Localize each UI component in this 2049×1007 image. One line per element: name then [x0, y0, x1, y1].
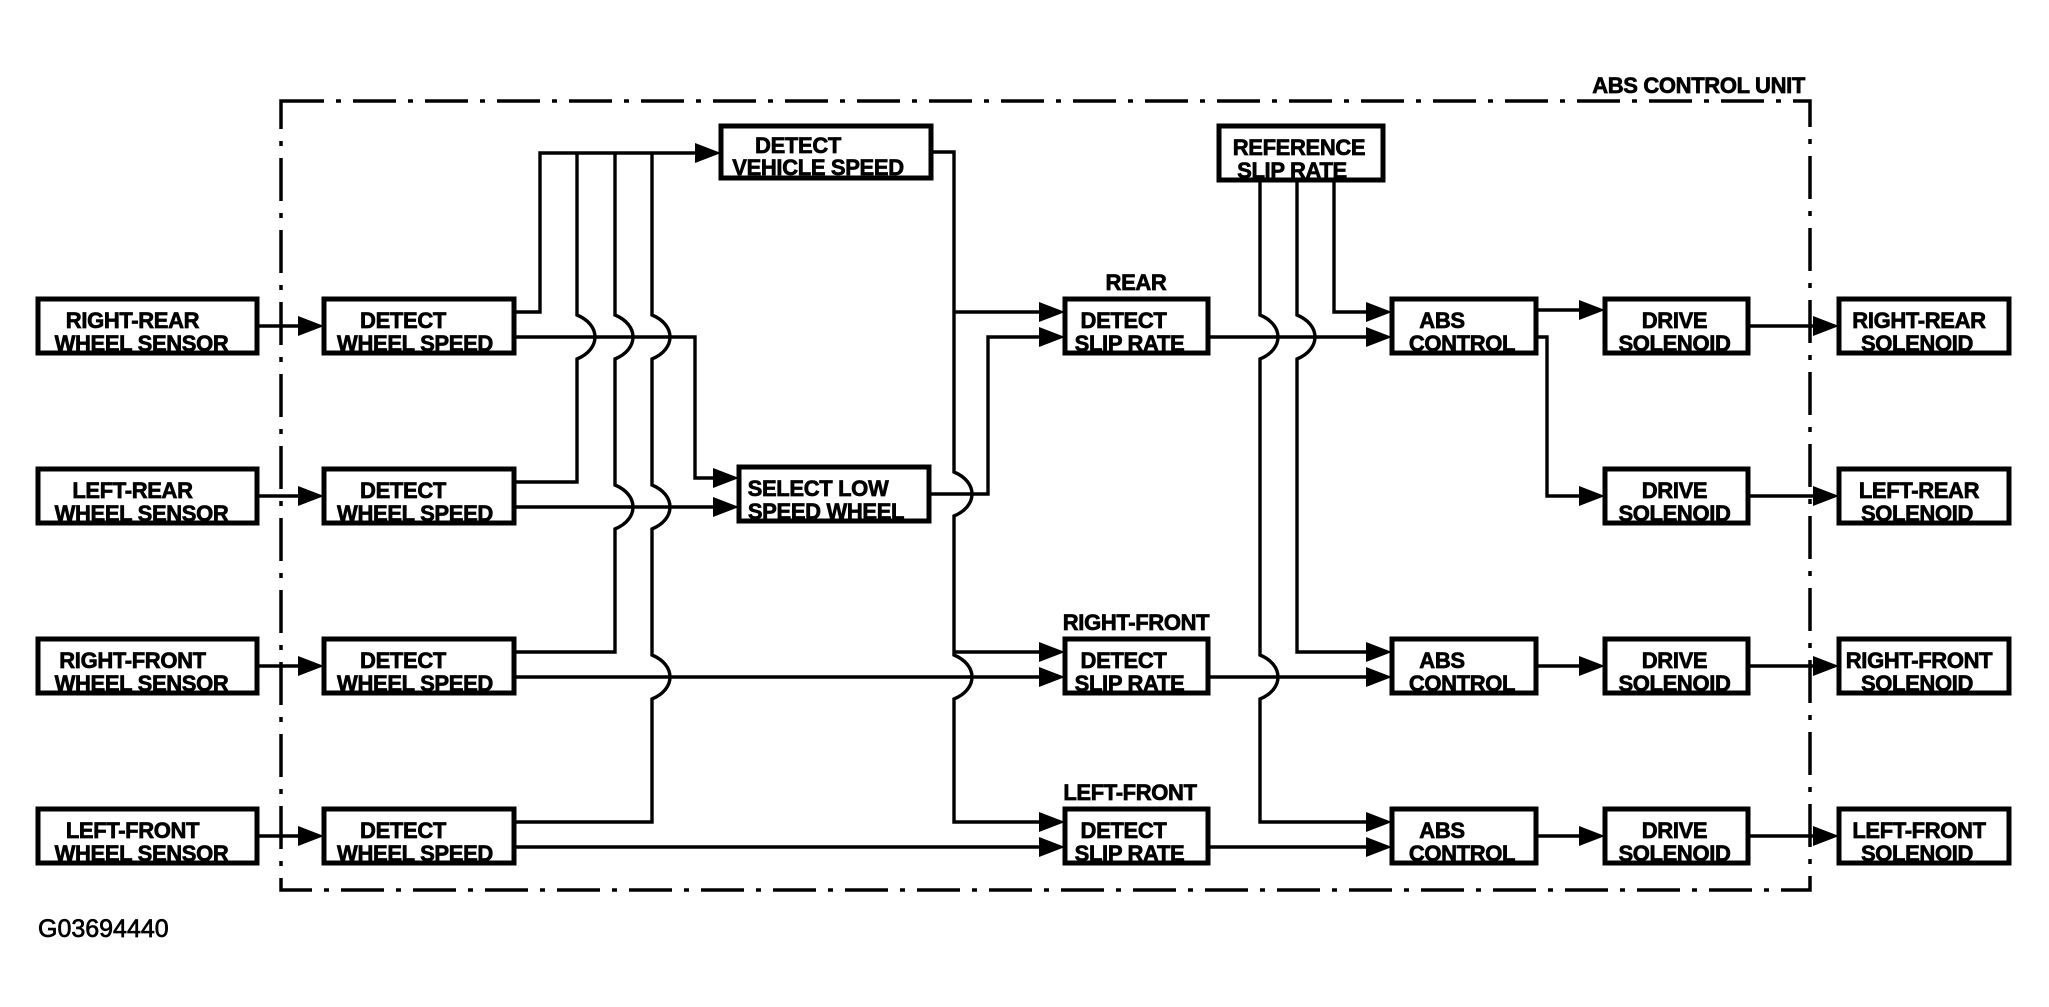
svg-text:LEFT-FRONT: LEFT-FRONT — [1063, 780, 1197, 805]
block RIGHT-FRONT WHEEL SENSOR input — [38, 639, 257, 696]
wire row3 wheel speed to RIGHT-FRONT DETECT SLIP RATE — [514, 675, 1041, 678]
arrowhead into DRIVE SOLENOID row1 — [1579, 300, 1605, 320]
svg-text:ABS: ABS — [1419, 308, 1464, 333]
svg-text:SLIP RATE: SLIP RATE — [1075, 331, 1185, 356]
block DRIVE SOLENOID (row 1) — [1605, 299, 1748, 356]
svg-text:DETECT: DETECT — [360, 648, 447, 673]
wire RIGHT-FRONT DETECT SLIP RATE to ABS CONTROL row3 — [1208, 675, 1368, 678]
wire REAR DETECT SLIP RATE to ABS CONTROL row1 — [1208, 335, 1368, 338]
svg-text:LEFT-FRONT: LEFT-FRONT — [1852, 818, 1986, 843]
wire ABS CONTROL row1 to DRIVE SOLENOID row2 — [1536, 337, 1581, 496]
arrowhead into LEFT-FRONT DETECT SLIP RATE upper input — [1039, 812, 1065, 832]
svg-text:SOLENOID: SOLENOID — [1618, 501, 1730, 526]
svg-text:ABS: ABS — [1419, 818, 1464, 843]
arrowhead into DRIVE SOLENOID row4 — [1579, 826, 1605, 846]
svg-text:RIGHT-REAR: RIGHT-REAR — [66, 308, 200, 333]
svg-text:DETECT: DETECT — [360, 308, 447, 333]
block DETECT WHEEL SPEED (row 2) — [324, 469, 514, 526]
block DRIVE SOLENOID (row 2) — [1605, 469, 1748, 526]
svg-text:WHEEL SENSOR: WHEEL SENSOR — [55, 841, 229, 866]
svg-text:SOLENOID: SOLENOID — [1861, 841, 1973, 866]
svg-text:SOLENOID: SOLENOID — [1861, 501, 1973, 526]
svg-text:DRIVE: DRIVE — [1642, 648, 1708, 673]
wire row2 wheel speed rising to feed line (hops row1) — [514, 153, 595, 482]
svg-text:SOLENOID: SOLENOID — [1618, 331, 1730, 356]
arrowhead into REAR DETECT SLIP RATE upper input — [1039, 302, 1065, 322]
svg-text:ABS: ABS — [1419, 648, 1464, 673]
block LEFT-REAR WHEEL SENSOR input — [38, 469, 257, 526]
svg-text:WHEEL SENSOR: WHEEL SENSOR — [55, 501, 229, 526]
block REFERENCE SLIP RATE — [1219, 126, 1383, 183]
block DRIVE SOLENOID (row 4) — [1605, 809, 1748, 866]
block LEFT-FRONT WHEEL SENSOR input — [38, 809, 257, 866]
wire DRIVE SOLENOID 4 to LEFT-FRONT SOLENOID — [1748, 834, 1815, 837]
svg-text:WHEEL SPEED: WHEEL SPEED — [337, 331, 493, 356]
block DETECT WHEEL SPEED (row 1) — [324, 299, 514, 356]
block DETECT SLIP RATE (REAR) — [1065, 299, 1208, 356]
svg-text:VEHICLE SPEED: VEHICLE SPEED — [732, 155, 904, 180]
svg-text:SPEED WHEEL: SPEED WHEEL — [748, 499, 904, 524]
block DETECT WHEEL SPEED (row 3) — [324, 639, 514, 696]
block SELECT LOW SPEED WHEEL — [739, 467, 929, 524]
arrowhead into RIGHT-FRONT SOLENOID — [1813, 656, 1839, 676]
wire DETECT VEHICLE SPEED trunk down to LEFT-FRONT DETECT SLIP RATE (hops select-low out, row3) — [931, 152, 1041, 822]
arrowhead into RIGHT-REAR SOLENOID — [1813, 316, 1839, 336]
svg-text:SOLENOID: SOLENOID — [1861, 331, 1973, 356]
arrowhead into DRIVE SOLENOID row3 — [1579, 656, 1605, 676]
arrowhead into DRIVE SOLENOID row2 — [1579, 486, 1605, 506]
svg-text:LEFT-REAR: LEFT-REAR — [1859, 478, 1980, 503]
wire REFERENCE SLIP RATE to ABS CONTROL row4 (hops rows1,3 out) — [1260, 180, 1368, 822]
arrowhead into DETECT VEHICLE SPEED — [695, 143, 721, 163]
svg-text:SOLENOID: SOLENOID — [1861, 671, 1973, 696]
arrowhead into ABS CONTROL row3 upper input — [1366, 642, 1392, 662]
svg-text:ABS CONTROL UNIT: ABS CONTROL UNIT — [1592, 73, 1806, 98]
svg-text:DRIVE: DRIVE — [1642, 818, 1708, 843]
wire LEFT-FRONT sensor to detect wheel speed — [257, 834, 300, 837]
svg-text:RIGHT-REAR: RIGHT-REAR — [1852, 308, 1986, 333]
wire row2 wheel speed to SELECT LOW lower input — [514, 505, 715, 508]
arrowhead into DETECT WHEEL SPEED 1 — [298, 316, 324, 336]
block RIGHT-REAR WHEEL SENSOR input — [38, 299, 257, 356]
svg-text:RIGHT-FRONT: RIGHT-FRONT — [1846, 648, 1993, 673]
block ABS CONTROL (row 3) — [1392, 639, 1536, 696]
arrowhead into LEFT-FRONT DETECT SLIP RATE lower input — [1039, 837, 1065, 857]
block LEFT-REAR SOLENOID output — [1839, 469, 2009, 526]
svg-text:SLIP RATE: SLIP RATE — [1237, 158, 1347, 183]
block DETECT SLIP RATE (LEFT-FRONT) — [1065, 809, 1208, 866]
block DETECT SLIP RATE (RIGHT-FRONT) — [1065, 639, 1208, 696]
svg-text:SLIP RATE: SLIP RATE — [1075, 841, 1185, 866]
svg-text:SOLENOID: SOLENOID — [1618, 671, 1730, 696]
svg-text:SELECT LOW: SELECT LOW — [748, 476, 889, 501]
wire row4 wheel speed to LEFT-FRONT DETECT SLIP RATE — [514, 845, 1041, 848]
svg-text:DETECT: DETECT — [360, 818, 447, 843]
arrowhead into SELECT LOW upper input — [713, 468, 739, 488]
svg-text:CONTROL: CONTROL — [1409, 671, 1515, 696]
svg-text:LEFT-REAR: LEFT-REAR — [72, 478, 193, 503]
svg-text:DRIVE: DRIVE — [1642, 308, 1708, 333]
svg-text:CONTROL: CONTROL — [1409, 841, 1515, 866]
dash-dot boundary of ABS control unit — [281, 101, 1810, 890]
arrowhead into LEFT-REAR SOLENOID — [1813, 486, 1839, 506]
svg-text:DETECT: DETECT — [1081, 648, 1168, 673]
arrowhead into ABS CONTROL row4 upper input — [1366, 812, 1392, 832]
wire ABS CONTROL row3 to DRIVE SOLENOID row3 — [1536, 664, 1581, 667]
wire vehicle speed branch to REAR DETECT SLIP RATE — [954, 310, 1041, 313]
svg-text:G03694440: G03694440 — [38, 915, 169, 943]
svg-text:CONTROL: CONTROL — [1409, 331, 1515, 356]
svg-text:WHEEL SPEED: WHEEL SPEED — [337, 671, 493, 696]
block ABS CONTROL (row 4) — [1392, 809, 1536, 866]
arrowhead into SELECT LOW lower input — [713, 497, 739, 517]
wire vehicle speed branch to RIGHT-FRONT DETECT SLIP RATE — [954, 650, 1041, 653]
wire DRIVE SOLENOID 2 to LEFT-REAR SOLENOID — [1748, 494, 1815, 497]
svg-text:DETECT: DETECT — [1081, 818, 1168, 843]
wire REFERENCE SLIP RATE to ABS CONTROL row3 (hops row1 out) — [1297, 180, 1368, 652]
svg-text:WHEEL SPEED: WHEEL SPEED — [337, 841, 493, 866]
svg-text:WHEEL SENSOR: WHEEL SENSOR — [55, 331, 229, 356]
arrowhead into ABS CONTROL row3 lower input — [1366, 667, 1392, 687]
svg-text:DETECT: DETECT — [1081, 308, 1168, 333]
wire row1 wheel speed to DETECT VEHICLE SPEED — [514, 153, 697, 312]
arrowhead into ABS CONTROL row4 lower input — [1366, 837, 1392, 857]
block DRIVE SOLENOID (row 3) — [1605, 639, 1748, 696]
svg-text:DRIVE: DRIVE — [1642, 478, 1708, 503]
wire RIGHT-FRONT sensor to detect wheel speed — [257, 664, 300, 667]
svg-text:RIGHT-FRONT: RIGHT-FRONT — [59, 648, 206, 673]
svg-text:SLIP RATE: SLIP RATE — [1075, 671, 1185, 696]
block RIGHT-FRONT SOLENOID output — [1839, 639, 2009, 696]
wire LEFT-FRONT DETECT SLIP RATE to ABS CONTROL row4 — [1208, 845, 1368, 848]
block DETECT WHEEL SPEED (row 4) — [324, 809, 514, 866]
svg-text:LEFT-FRONT: LEFT-FRONT — [66, 818, 200, 843]
svg-text:RIGHT-FRONT: RIGHT-FRONT — [1063, 610, 1210, 635]
wire row3 wheel speed rising to feed line (hops rows 2,1) — [514, 153, 633, 652]
svg-text:WHEEL SPEED: WHEEL SPEED — [337, 501, 493, 526]
block ABS CONTROL (row 1) — [1392, 299, 1536, 356]
wire ABS CONTROL row4 to DRIVE SOLENOID row4 — [1536, 834, 1581, 837]
block DETECT VEHICLE SPEED — [721, 126, 931, 180]
block RIGHT-REAR SOLENOID output — [1839, 299, 2009, 356]
svg-text:SOLENOID: SOLENOID — [1618, 841, 1730, 866]
arrowhead into DETECT WHEEL SPEED 2 — [298, 486, 324, 506]
svg-text:DETECT: DETECT — [360, 478, 447, 503]
arrowhead into REAR DETECT SLIP RATE lower input — [1039, 327, 1065, 347]
wire SELECT LOW output to REAR DETECT SLIP RATE lower input — [929, 337, 1041, 494]
block LEFT-FRONT SOLENOID output — [1839, 809, 2009, 866]
arrowhead into ABS CONTROL row1 lower input — [1366, 327, 1392, 347]
wire row1 wheel speed to SELECT LOW upper input — [514, 337, 715, 478]
wire DRIVE SOLENOID 1 to RIGHT-REAR SOLENOID — [1748, 324, 1815, 327]
svg-text:WHEEL SENSOR: WHEEL SENSOR — [55, 671, 229, 696]
svg-text:REAR: REAR — [1106, 270, 1167, 295]
arrowhead into DETECT WHEEL SPEED 4 — [298, 826, 324, 846]
svg-text:REFERENCE: REFERENCE — [1233, 135, 1366, 160]
arrowhead into ABS CONTROL row1 upper input — [1366, 302, 1392, 322]
wire ABS CONTROL row1 to DRIVE SOLENOID row1 — [1536, 308, 1581, 311]
arrowhead into DETECT WHEEL SPEED 3 — [298, 656, 324, 676]
wire LEFT-REAR sensor to detect wheel speed — [257, 494, 300, 497]
wire REFERENCE SLIP RATE to ABS CONTROL row1 upper input — [1334, 180, 1368, 312]
arrowhead into LEFT-FRONT SOLENOID — [1813, 826, 1839, 846]
arrowhead into RIGHT-FRONT DETECT SLIP RATE lower input — [1039, 667, 1065, 687]
wire RIGHT-REAR sensor to detect wheel speed — [257, 324, 300, 327]
arrowhead into RIGHT-FRONT DETECT SLIP RATE upper input — [1039, 642, 1065, 662]
wire row4 wheel speed rising to feed line (hops rows 3,2,1) — [514, 153, 670, 822]
wire DRIVE SOLENOID 3 to RIGHT-FRONT SOLENOID — [1748, 664, 1815, 667]
